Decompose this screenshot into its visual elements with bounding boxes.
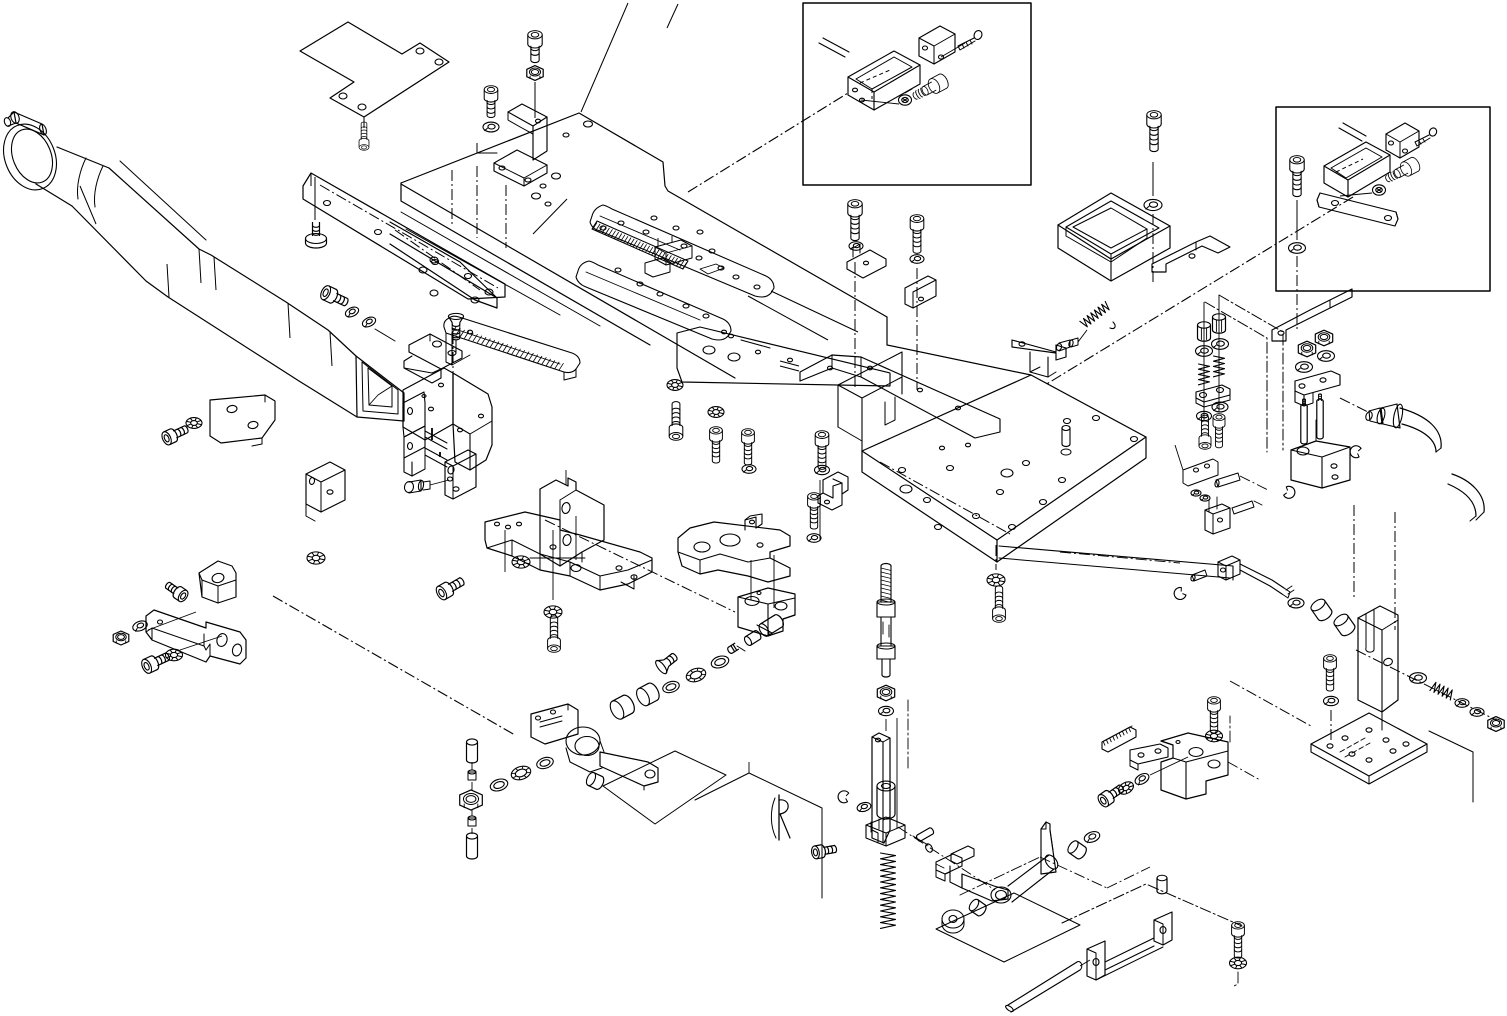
- box2 screw: [1415, 127, 1438, 146]
- lever leader: [898, 827, 995, 890]
- sub bracket B2: [540, 478, 604, 566]
- wire into box1: [819, 38, 849, 57]
- stack spring B: [1214, 356, 1225, 377]
- column bracket: [1358, 606, 1398, 730]
- screw right of arm: [807, 493, 821, 543]
- phantom lead rack: [1040, 857, 1150, 888]
- bracket under S5: [905, 276, 936, 308]
- washer BL: [131, 619, 148, 633]
- screw LC2: [160, 422, 190, 446]
- tension spring: [1080, 301, 1111, 328]
- feeder leader: [430, 480, 449, 485]
- box1 phillips: [899, 89, 913, 105]
- cover plate LC: [210, 395, 275, 446]
- T-bracket: [1012, 340, 1066, 377]
- box1 leader: [941, 43, 965, 57]
- U-clip above arm: [818, 472, 848, 510]
- E-ring A: [1349, 444, 1362, 458]
- screw left3: [742, 429, 756, 474]
- washer S4: [849, 242, 863, 251]
- stack link plate: [1196, 385, 1230, 407]
- screw S5: [910, 215, 924, 264]
- leader clip LC: [452, 333, 454, 424]
- lever pin: [913, 827, 935, 853]
- bracket under S4: [847, 244, 886, 278]
- bottom rail: [1087, 912, 1172, 980]
- leader Z-bracket: [452, 143, 506, 248]
- P7 leaders: [505, 516, 585, 600]
- bed plate P2: [401, 113, 1031, 378]
- stack washer A: [1196, 346, 1213, 357]
- feeder right body: [453, 373, 492, 470]
- feeder channel lines: [425, 428, 447, 467]
- drive block: [1161, 733, 1228, 799]
- base washer R2: [1455, 699, 1469, 708]
- screw BR: [1230, 922, 1247, 987]
- leader S5: [916, 268, 918, 390]
- stack washer D: [1197, 411, 1212, 420]
- screw cluster LC: [319, 284, 395, 341]
- R clip: [771, 795, 790, 840]
- phantom quad lever: [936, 893, 1080, 962]
- idler leaders: [1175, 445, 1268, 490]
- leader TR2: [1296, 200, 1298, 330]
- arm bracket: [678, 514, 790, 582]
- cover plate A: [300, 22, 449, 117]
- box2 leader2: [1340, 193, 1372, 196]
- clip C1: [1152, 236, 1230, 272]
- idler pin: [1214, 473, 1240, 487]
- rail R2: [390, 222, 497, 308]
- box2 channel bracket: [1324, 142, 1390, 197]
- bed plate frames: [576, 205, 774, 340]
- hex nut G: [1315, 330, 1332, 346]
- base washer R: [1410, 673, 1427, 684]
- rod leader: [1080, 960, 1090, 966]
- threaded rod: [877, 564, 895, 678]
- angle plate LC3: [306, 462, 345, 521]
- screw below P4: [993, 586, 1006, 622]
- crank boss: [566, 727, 604, 772]
- P4 pin: [1061, 426, 1071, 456]
- crank bushing: [585, 771, 606, 791]
- washer G: [1318, 351, 1335, 362]
- lever arm2: [962, 874, 1008, 901]
- detail box 1 frame: [803, 3, 1031, 185]
- phantom quads center: [603, 751, 822, 898]
- drive leaders: [1150, 716, 1260, 780]
- tray box: [1058, 193, 1170, 281]
- hatched strip: [592, 221, 688, 269]
- base hex nut: [1488, 717, 1504, 732]
- cyl stack left: [460, 739, 483, 859]
- column dashdots: [1354, 505, 1395, 630]
- pivot plate BL: [199, 561, 236, 603]
- pin G: [1317, 394, 1323, 439]
- clip C2: [1272, 289, 1352, 341]
- stack knurl B: [1213, 314, 1226, 334]
- flat screw LC: [448, 313, 463, 352]
- stack center lines: [1204, 295, 1219, 420]
- base phantom: [1230, 681, 1473, 802]
- box2 phillips: [1373, 185, 1386, 195]
- idler block: [1205, 497, 1230, 534]
- feeder back plate: [403, 368, 453, 440]
- star washer LC4: [512, 556, 530, 568]
- arm leaders: [751, 480, 820, 608]
- screw below plate A: [359, 117, 369, 150]
- bar leaders: [886, 718, 897, 828]
- leader line 3: [533, 199, 567, 234]
- cable grommet: [1365, 403, 1405, 428]
- cable wire: [1400, 408, 1484, 521]
- leader line 3b: [1045, 197, 1353, 385]
- stack washer B: [1212, 339, 1229, 350]
- lever flag: [1041, 822, 1056, 874]
- box1 shoulder screw: [910, 72, 950, 104]
- tension spring hook: [1110, 322, 1115, 329]
- platform plate P4: [838, 352, 1146, 562]
- leader TR1: [1152, 162, 1154, 282]
- rack bar: [1102, 726, 1136, 752]
- screw left2: [708, 407, 724, 464]
- base leader: [1356, 650, 1500, 722]
- base spring: [1430, 681, 1455, 700]
- bed plate inner lines: [748, 291, 858, 340]
- crank plate: [531, 704, 578, 744]
- stepped bar P7: [485, 512, 652, 590]
- hose clamp: [0, 110, 66, 197]
- duct tube: [36, 147, 404, 421]
- feed dog blocks: [645, 236, 724, 277]
- lever washer: [942, 910, 964, 933]
- stack screw A: [1199, 415, 1211, 449]
- clevis pin: [1190, 570, 1207, 581]
- star washer LC: [186, 418, 202, 429]
- vertical bar B5: [872, 733, 890, 843]
- phantom lead bl: [273, 596, 515, 735]
- screw center horiz: [811, 842, 838, 859]
- pivot block: [1291, 420, 1350, 488]
- drive screw2: [1096, 771, 1151, 809]
- feeder left blocks: [403, 392, 425, 476]
- P4 dashdot: [880, 462, 1010, 534]
- screw under R1: [306, 177, 327, 248]
- washer TR1: [1144, 199, 1162, 210]
- crank rings left: [489, 755, 555, 793]
- Z-bracket: [494, 104, 547, 186]
- bent rail P3: [800, 355, 1000, 438]
- rail cylinder: [1157, 875, 1167, 894]
- screw LC3: [434, 574, 467, 602]
- idler plate outline: [1183, 459, 1218, 486]
- feeder set screw: [404, 480, 430, 493]
- leader S3: [534, 82, 536, 118]
- lever roller: [1008, 853, 1060, 902]
- E-ring bar: [837, 790, 849, 804]
- washer F: [1296, 362, 1313, 373]
- E-ring C: [1172, 586, 1187, 602]
- bed plate holes: [532, 121, 761, 318]
- clip bracket LC: [404, 334, 462, 383]
- wire into box2: [1339, 123, 1366, 141]
- base washer R3: [1470, 708, 1484, 717]
- screw S2: [483, 86, 499, 132]
- box1 screw: [958, 29, 983, 50]
- tension stud: [1056, 338, 1078, 351]
- stack washer C: [1212, 402, 1228, 412]
- screw BL2: [140, 649, 172, 675]
- box2 bar: [1317, 193, 1398, 226]
- box2 block: [1386, 123, 1419, 158]
- screw above arm: [815, 431, 830, 475]
- leader B2: [565, 470, 567, 485]
- box1 leader2: [861, 100, 899, 104]
- B4 pin: [727, 613, 786, 654]
- leader line 2: [581, 3, 628, 112]
- rack link: [1130, 744, 1168, 770]
- box1 channel bracket: [848, 51, 920, 110]
- idler pin2: [1232, 501, 1262, 514]
- screw left of arm: [667, 380, 683, 441]
- P4 holes: [899, 416, 1138, 530]
- lever bushing2: [1066, 839, 1089, 861]
- lever fork: [936, 846, 974, 888]
- lower rail P6: [999, 546, 1233, 580]
- ring series: [607, 654, 730, 721]
- feeder lower block: [445, 450, 476, 499]
- cyl bracket center: [866, 781, 905, 846]
- screw below P7: [548, 616, 561, 652]
- hex nut F: [1298, 341, 1315, 357]
- leader below P4: [995, 545, 997, 570]
- clevis rod: [1218, 556, 1294, 598]
- block B4: [738, 588, 795, 636]
- leader S4: [854, 262, 856, 388]
- ramp plate: [444, 316, 580, 380]
- lever bushing: [967, 898, 988, 918]
- stack spring A: [1199, 364, 1210, 385]
- screw TR2: [1290, 156, 1304, 197]
- screw TR1: [1147, 111, 1161, 152]
- rod washers: [1288, 597, 1357, 638]
- stack screw B: [1213, 414, 1225, 448]
- T-block: [1295, 371, 1340, 406]
- star washer P7: [544, 606, 562, 618]
- flat screw B3: [654, 649, 681, 675]
- rail R1: [303, 173, 505, 299]
- lever boss: [991, 887, 1011, 903]
- pin F: [1301, 399, 1307, 444]
- base screw: [1324, 655, 1339, 740]
- sub-rail P5: [677, 327, 890, 386]
- stack dashdot elbows: [1205, 295, 1283, 452]
- leader line 2b: [667, 4, 678, 28]
- hex nut BL: [113, 631, 129, 645]
- hex nut rod: [877, 685, 894, 701]
- long rod: [1005, 962, 1082, 1013]
- screw S3: [527, 31, 543, 81]
- star washer BL: [166, 649, 183, 661]
- star washer LC3: [307, 552, 325, 564]
- lever washer2: [1083, 830, 1101, 845]
- bar spring: [881, 853, 896, 928]
- box2 shoulder screw: [1383, 156, 1422, 187]
- base plate: [1311, 713, 1427, 784]
- washer TR2: [1289, 243, 1306, 254]
- leaders BL: [148, 612, 222, 650]
- lever bar BL: [146, 610, 246, 664]
- washer below P4: [987, 574, 1005, 586]
- leader grommet: [1340, 398, 1368, 412]
- idler washers: [1191, 490, 1210, 501]
- crank arm: [600, 752, 658, 790]
- drive screw: [1206, 697, 1223, 742]
- screw BL1: [163, 579, 190, 603]
- screw S4: [848, 200, 862, 241]
- phantom rail lines: [908, 700, 1242, 926]
- box1 block: [919, 26, 955, 64]
- stack knurl A: [1198, 322, 1211, 342]
- dashdot L4: [545, 520, 735, 612]
- detail box 2 frame: [1276, 107, 1490, 291]
- tension axis: [1078, 330, 1087, 342]
- E-ring B: [1283, 485, 1297, 500]
- leader line 1: [688, 93, 848, 192]
- washer rod: [879, 706, 894, 715]
- washer bar: [856, 801, 872, 813]
